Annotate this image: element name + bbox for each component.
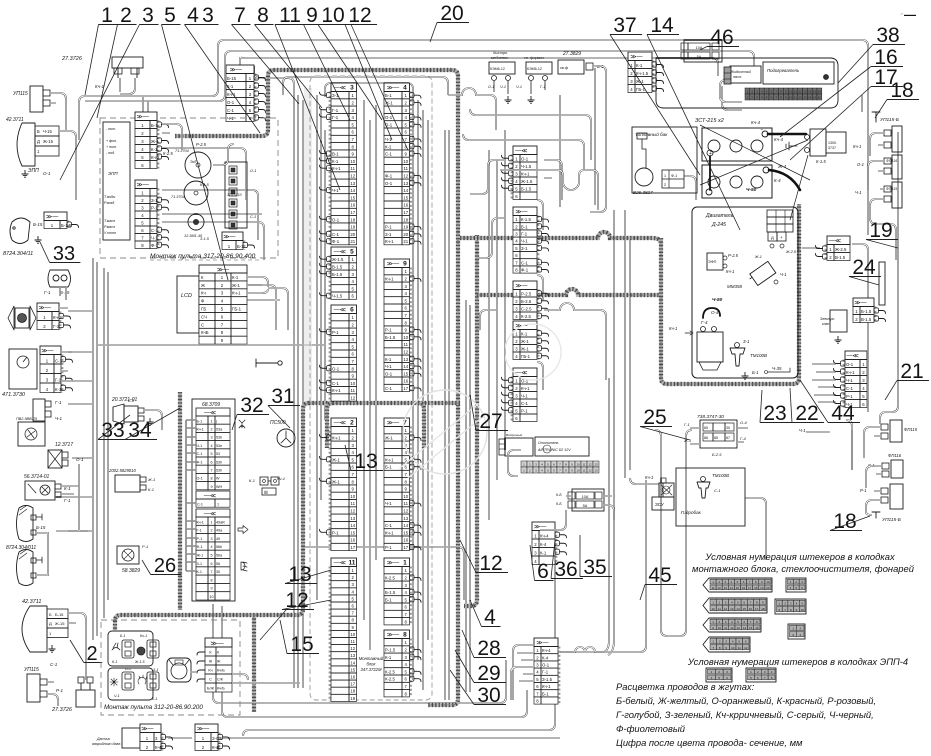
svg-text:8724.304/011: 8724.304/011 [6, 545, 36, 551]
braid stub to strip7 [418, 403, 424, 448]
svg-text:С-1: С-1 [55, 358, 63, 363]
wire below strips 2-7 [305, 547, 464, 600]
svg-text:16: 16 [350, 203, 355, 208]
svg-text:ММ358: ММ358 [727, 284, 743, 289]
svg-text:С-1: С-1 [227, 108, 235, 113]
svg-text:19: 19 [403, 225, 408, 230]
svg-text:О-1: О-1 [76, 457, 84, 462]
svg-text:≫—: ≫— [41, 349, 53, 355]
svg-text:3: 3 [210, 537, 212, 541]
svg-text:≫—: ≫— [217, 268, 229, 274]
svg-text:31: 31 [271, 385, 294, 408]
svg-text:Г-4: Г-4 [701, 320, 708, 325]
svg-text:▤: ▤ [264, 490, 268, 495]
svg-text:20: 20 [440, 2, 463, 25]
svg-text:ГБ-1: ГБ-1 [521, 354, 531, 359]
svg-text:С-1: С-1 [521, 401, 529, 406]
svg-text:З-1.5: З-1.5 [542, 677, 553, 682]
svg-text:С-1: С-1 [197, 452, 203, 456]
connector X7 strip [384, 418, 410, 551]
legend pictogram row1 [703, 578, 772, 592]
svg-text:≫—: ≫— [387, 421, 399, 427]
svg-text:≫—: ≫— [223, 235, 235, 241]
svg-text:42.3711: 42.3711 [22, 599, 41, 605]
svg-text:1: 1 [403, 560, 407, 567]
pult 317 dashed box [100, 118, 278, 258]
ignition gauge [167, 658, 191, 682]
svg-text:36: 36 [554, 558, 577, 581]
svg-text:≫—: ≫— [515, 210, 527, 216]
svg-text:5: 5 [210, 554, 212, 558]
svg-text:Ф-1: Ф-1 [197, 545, 203, 549]
svg-text:О-1: О-1 [332, 217, 340, 222]
svg-text:К-1.5: К-1.5 [521, 217, 532, 222]
svg-text:Б-1: Б-1 [197, 419, 203, 423]
svg-text:ФП116: ФП116 [888, 453, 902, 458]
svg-text:Кч-1: Кч-1 [846, 370, 855, 375]
svg-text:Кч-1: Кч-1 [385, 457, 394, 462]
svg-text:16: 16 [403, 203, 408, 208]
svg-text:Б-1.5: Б-1.5 [385, 335, 396, 340]
svg-text:Г-1: Г-1 [55, 377, 62, 382]
switch panel lower [108, 668, 153, 700]
svg-text:738.3747-30: 738.3747-30 [697, 414, 724, 420]
svg-text:21: 21 [403, 239, 408, 244]
liquid pump box [730, 66, 761, 83]
wire from pult down [143, 97, 148, 118]
svg-text:О-1: О-1 [385, 181, 393, 186]
svg-text:14: 14 [403, 188, 408, 193]
svg-text:Монтаж пульта 312-20-86.90.200: Монтаж пульта 312-20-86.90.200 [104, 704, 203, 711]
svg-text:16: 16 [742, 586, 746, 590]
svg-text:С-1: С-1 [250, 215, 256, 219]
connector G-1 Ch-1 [33, 399, 45, 421]
svg-text:9: 9 [210, 485, 212, 489]
svg-text:Ж-1: Ж-1 [385, 101, 393, 106]
svg-text:Ж-2.5: Ж-2.5 [785, 250, 797, 254]
svg-text:Р-1: Р-1 [385, 225, 392, 230]
svg-text:Кч-4: Кч-4 [540, 533, 549, 538]
svg-text:Ч-1: Ч-1 [780, 272, 787, 277]
svg-text:Б-1: Б-1 [385, 597, 392, 602]
svg-text:6: 6 [210, 460, 212, 464]
svg-text:5А: 5А [583, 504, 588, 508]
svg-text:2002.5829010: 2002.5829010 [108, 468, 136, 473]
battery 1 [702, 128, 772, 161]
svg-text:7: 7 [210, 570, 212, 574]
svg-text:1: 1 [101, 4, 113, 27]
svg-text:К-1: К-1 [521, 331, 528, 336]
svg-text:12: 12 [724, 607, 728, 611]
68.3709 left wires [186, 419, 196, 421]
svg-text:Г-голубой, З-зеленый, Кч-кррич: Г-голубой, З-зеленый, Кч-крричневый, С-с… [616, 709, 874, 720]
wire wave mid 2 [478, 218, 505, 330]
svg-text:21: 21 [900, 360, 923, 383]
svg-text:1: 1 [217, 503, 219, 507]
connector X3 strip [331, 83, 357, 245]
test point symbol [256, 359, 277, 367]
svg-text:—≪: —≪ [334, 421, 346, 427]
svg-text:ТМ100В: ТМ100В [712, 473, 729, 478]
svg-text:К-2.5: К-2.5 [521, 314, 532, 319]
svg-text:Б-1: Б-1 [542, 691, 549, 696]
svg-text:1: 1 [664, 174, 666, 178]
svg-text:17: 17 [755, 607, 759, 611]
svg-text:К-4: К-4 [540, 542, 547, 547]
svg-text:К-1: К-1 [55, 387, 62, 392]
wiper icon [239, 420, 245, 428]
svg-text:≫—: ≫— [387, 561, 399, 567]
svg-text:Ж-4: Ж-4 [777, 164, 787, 169]
svg-text:Ч-1: Ч-1 [521, 239, 528, 244]
svg-text:13: 13 [803, 96, 807, 100]
svg-text:29: 29 [477, 662, 500, 685]
svg-text:53b: 53b [216, 436, 222, 440]
svg-text:18: 18 [761, 607, 765, 611]
svg-text:3737: 3737 [828, 146, 836, 150]
svg-text:К-1: К-1 [249, 478, 255, 483]
svg-text:20: 20 [403, 232, 408, 237]
turnsignal icon [238, 526, 248, 534]
svg-text:Подогреватель: Подогреватель [767, 68, 800, 73]
svg-text:Ж-1: Ж-1 [521, 346, 529, 351]
connector bottom mid 8pin [534, 638, 558, 704]
svg-text:Монтаж пульта 317-20-86.90.400: Монтаж пульта 317-20-86.90.400 [150, 253, 256, 260]
svg-text:58.3829: 58.3829 [122, 568, 140, 574]
svg-text:2: 2 [86, 643, 97, 665]
svg-text:13: 13 [403, 516, 408, 521]
svg-text:68.3709: 68.3709 [202, 402, 220, 408]
svg-text:5А: 5А [697, 55, 702, 59]
svg-text:аварийного давл.: аварийного давл. [92, 742, 121, 746]
svg-text:AIRTRONIC D2 12V: AIRTRONIC D2 12V [537, 448, 571, 452]
svg-text:Ч-50: Ч-50 [712, 297, 723, 303]
connector mid M3 4pin [513, 281, 537, 320]
svg-text:13: 13 [724, 586, 728, 590]
svg-text:2: 2 [350, 420, 354, 427]
fuse block top [684, 40, 722, 62]
fuse block mid [572, 489, 604, 511]
svg-text:Ж: Ж [201, 283, 205, 288]
fog lamp 8724.304/011 upper [17, 506, 34, 542]
svg-text:Т.масл: Т.масл [104, 219, 115, 223]
svg-text:Кч-1: Кч-1 [332, 166, 341, 171]
svg-text:С-1: С-1 [332, 381, 340, 386]
svg-text:≫—: ≫— [387, 262, 399, 268]
podogrevatel box [763, 62, 834, 84]
svg-text:7: 7 [210, 469, 212, 473]
svg-text:15: 15 [403, 371, 408, 376]
svg-text:≫—: ≫— [137, 115, 149, 121]
svg-text:Расцветка проводов в жгутах:: Расцветка проводов в жгутах: [616, 681, 755, 692]
braid crossing horizontal [115, 403, 460, 630]
svg-text:Г-1: Г-1 [521, 232, 528, 237]
svg-text:17: 17 [403, 545, 408, 550]
pult connector A [135, 112, 157, 169]
wire right lamps loop [846, 412, 892, 470]
LCD connector [199, 265, 247, 344]
legend pictogram row2 [703, 598, 767, 613]
svg-text:КчБ: КчБ [155, 745, 163, 750]
horn 8724.304/11 [10, 218, 30, 244]
svg-text:53а: 53а [216, 428, 223, 432]
svg-text:≫—: ≫— [387, 86, 399, 92]
connector X8 strip [384, 630, 410, 697]
svg-text:10: 10 [350, 381, 355, 386]
LCD unit [177, 276, 199, 333]
svg-text:87: 87 [726, 436, 730, 440]
svg-text:Ф-1: Ф-1 [385, 174, 393, 179]
svg-text:14: 14 [403, 523, 408, 528]
svg-text:16: 16 [350, 538, 355, 543]
wires mid column verticals [489, 130, 505, 520]
wires between mid strips [537, 200, 543, 390]
svg-text:14: 14 [350, 188, 355, 193]
svg-text:Ч-1: Ч-1 [114, 694, 120, 698]
svg-text:Р-2.5: Р-2.5 [196, 142, 207, 147]
svg-text:Кч-1: Кч-1 [726, 269, 734, 274]
wire hump mid right [544, 303, 606, 380]
wire wave to mid strip M1 [470, 160, 505, 194]
svg-text:Б-1.5: Б-1.5 [332, 272, 343, 277]
svg-text:42.3711: 42.3711 [6, 117, 24, 123]
svg-text:О-1: О-1 [250, 169, 256, 173]
svg-text:клап.: клап. [822, 322, 830, 326]
svg-text:11: 11 [711, 586, 714, 590]
svg-text:С-1: С-1 [521, 260, 529, 265]
svg-text:Кч-1: Кч-1 [95, 84, 104, 89]
svg-text:З-1: З-1 [151, 198, 158, 203]
TM100V sensor engine [735, 343, 740, 348]
svg-text:Г-1: Г-1 [542, 670, 549, 675]
wire top run 20 [85, 40, 868, 108]
wire fuel sender out [684, 176, 696, 200]
wires right margin of block [413, 95, 428, 690]
otopitel airtronic [535, 437, 589, 456]
svg-text:W: W [216, 477, 220, 481]
svg-text:13: 13 [594, 463, 598, 467]
svg-text:15: 15 [813, 90, 817, 94]
wire gidrobak right [745, 498, 766, 560]
svg-text:10: 10 [403, 494, 408, 499]
svg-text:56: 56 [216, 562, 220, 566]
svg-text:Кч-1: Кч-1 [151, 155, 160, 160]
wire left harness vertical [93, 258, 97, 640]
wire pair right of block [445, 130, 449, 700]
svg-text:11: 11 [351, 166, 356, 171]
svg-text:6: 6 [537, 560, 549, 583]
svg-text:К-1: К-1 [332, 159, 339, 164]
svg-text:21: 21 [350, 239, 355, 244]
svg-text:С-1: С-1 [385, 386, 393, 391]
svg-text:Ф-1: Ф-1 [521, 268, 529, 273]
svg-text:Жидкостный: Жидкостный [730, 70, 751, 74]
svg-text:Д: Д [49, 621, 52, 626]
svg-text:71.3704: 71.3704 [171, 195, 185, 199]
svg-text:10: 10 [403, 159, 408, 164]
svg-text:Р-1: Р-1 [56, 688, 64, 693]
svg-text:13: 13 [350, 653, 355, 658]
svg-text:11: 11 [351, 639, 356, 644]
svg-text:К-1: К-1 [540, 550, 547, 555]
braid branch down left [252, 615, 256, 712]
svg-text:Ч-50: Ч-50 [746, 187, 757, 193]
svg-text:В-1.5: В-1.5 [835, 255, 846, 260]
wire top run 2nd [85, 51, 754, 101]
svg-text:Г-1: Г-1 [55, 400, 62, 405]
svg-text:Ж-1: Ж-1 [521, 339, 529, 344]
connector otopitel 4pin [532, 522, 555, 565]
svg-text:11: 11 [351, 388, 356, 393]
legend EPP pictograms [706, 668, 732, 682]
svg-text:Г-1: Г-1 [332, 108, 339, 113]
svg-text:Кч/Б: Кч/Б [217, 687, 225, 691]
svg-text:К-2.5: К-2.5 [385, 576, 396, 581]
svg-text:В-1.5: В-1.5 [332, 265, 343, 270]
svg-text:33: 33 [53, 243, 75, 265]
svg-text:37: 37 [613, 14, 636, 37]
svg-text:Б-1: Б-1 [152, 697, 158, 701]
svg-text:15: 15 [743, 607, 747, 611]
svg-text:Кч-1: Кч-1 [385, 239, 394, 244]
svg-text:17: 17 [403, 210, 408, 215]
svg-text:св.ф: св.ф [560, 66, 568, 70]
connector X1 strip [384, 558, 410, 625]
wire bottom loop 1 [213, 604, 506, 703]
svg-text:4: 4 [484, 606, 496, 629]
gauge 71.3704 upper [185, 152, 211, 178]
lamp FP116 top [892, 155, 902, 179]
svg-text:Ж-1: Ж-1 [197, 554, 204, 558]
svg-text:11: 11 [724, 626, 727, 630]
svg-text:Кч: Кч [208, 669, 212, 673]
svg-text:В-1.5: В-1.5 [861, 317, 872, 322]
svg-text:Кч-4: Кч-4 [774, 137, 783, 142]
svg-text:Ч-1: Ч-1 [516, 85, 522, 89]
svg-text:18: 18 [350, 689, 355, 694]
svg-text:15: 15 [736, 586, 740, 590]
svg-text:Б-белый, Ж-желтый, О-оранжевый: Б-белый, Ж-желтый, О-оранжевый, К-красны… [616, 695, 876, 706]
svg-text:Кч-1: Кч-1 [385, 530, 394, 535]
svg-text:4: 4 [187, 4, 199, 27]
engine right connector [827, 236, 850, 261]
svg-text:Ч-1: Ч-1 [521, 393, 528, 398]
svg-text:12: 12 [799, 96, 803, 100]
svg-text:св. формоз: св. формоз [524, 56, 544, 60]
fog lamp 8724.304/011 lower [17, 550, 34, 586]
svg-text:13: 13 [403, 357, 408, 362]
braid engine feed 1 [460, 232, 661, 244]
svg-text:Б-15: Б-15 [33, 222, 43, 227]
svg-text:К-1: К-1 [112, 660, 117, 664]
svg-text:WH: WH [216, 485, 222, 489]
svg-text:Ж-1: Ж-1 [754, 255, 762, 259]
svg-text:49а: 49а [216, 529, 223, 533]
svg-text:12: 12 [730, 626, 734, 630]
svg-text:Топливный бак: Топливный бак [635, 131, 668, 137]
wire left harness vertical 2 [104, 268, 108, 618]
legend pictogram row3 [703, 618, 761, 632]
svg-text:≫—: ≫— [197, 727, 209, 733]
svg-text:ГБ-1: ГБ-1 [232, 307, 242, 312]
svg-text:15: 15 [290, 633, 313, 656]
svg-text:—≪: —≪ [515, 149, 527, 155]
svg-text:19: 19 [350, 225, 355, 230]
svg-text:12: 12 [588, 469, 592, 473]
svg-text:Кч-1: Кч-1 [853, 144, 861, 149]
svg-text:О-1: О-1 [197, 477, 203, 481]
svg-text:3: 3 [210, 436, 212, 440]
svg-text:11: 11 [794, 90, 797, 94]
svg-text:Кч-1: Кч-1 [140, 634, 147, 638]
svg-text:насос: насос [733, 75, 742, 79]
svg-text:Цифра после цвета провода- сеч: Цифра после цвета провода- сечение, мм [616, 737, 803, 748]
svg-text:30: 30 [726, 426, 730, 430]
svg-text:12: 12 [403, 509, 408, 514]
svg-text:4: 4 [210, 444, 212, 448]
svg-text:Ч-1: Ч-1 [799, 428, 806, 433]
svg-text:С-2.5: С-2.5 [521, 306, 532, 311]
svg-text:53h: 53h [216, 460, 222, 464]
montage block dashed boundary [310, 76, 432, 700]
svg-text:17: 17 [748, 586, 752, 590]
svg-text:375.3710: 375.3710 [227, 193, 242, 197]
svg-text:—≪: —≪ [847, 354, 859, 360]
svg-text:Ч-1: Ч-1 [151, 235, 158, 240]
svg-text:33: 33 [101, 419, 124, 442]
svg-text:К-2.5: К-2.5 [385, 677, 396, 682]
otopitel terminal strip [521, 461, 527, 467]
svg-text:В-1: В-1 [332, 152, 339, 157]
wire right verticals x625 [625, 210, 630, 478]
hydrotank box [676, 468, 745, 526]
svg-text:Г-4: Г-4 [740, 436, 747, 441]
svg-text:К-Б: К-Б [556, 493, 562, 497]
wires left ladder to harness [56, 311, 93, 531]
svg-text:Ж-15: Ж-15 [55, 621, 65, 626]
svg-text:18: 18 [833, 510, 856, 533]
svg-text:ЗСУ: ЗСУ [655, 502, 664, 507]
svg-text:Воздушный: Воздушный [506, 433, 522, 437]
svg-text:—≪: —≪ [204, 411, 216, 417]
svg-text:16: 16 [403, 379, 408, 384]
svg-text:13: 13 [354, 450, 377, 473]
svg-text:32: 32 [240, 394, 263, 417]
switch block 68.3709 [192, 399, 235, 601]
svg-text:18: 18 [350, 217, 355, 222]
svg-text:Д: Д [37, 139, 40, 144]
svg-text:Ф-1: Ф-1 [197, 460, 203, 464]
svg-text:14: 14 [808, 96, 812, 100]
svg-text:З-1: З-1 [385, 232, 392, 237]
svg-text:Ж-1: Ж-1 [332, 457, 340, 462]
wire fog lamps bracket [36, 533, 48, 575]
svg-text:38: 38 [876, 24, 899, 47]
svg-text:Р-1: Р-1 [385, 328, 392, 333]
connector mid M2 8pin [513, 207, 537, 273]
svg-text:СЧ: СЧ [201, 314, 207, 319]
connector X2 strip [331, 418, 357, 551]
svg-text:13: 13 [803, 90, 807, 94]
svg-text:З-1: З-1 [153, 668, 158, 672]
heater enclosure [656, 58, 838, 108]
svg-text:11: 11 [348, 560, 355, 567]
svg-text:К-1.5: К-1.5 [816, 159, 826, 164]
connector X11 strip [331, 558, 357, 701]
wire bump run to strip [560, 480, 646, 652]
svg-text:—≪: —≪ [334, 250, 346, 256]
svg-text:10: 10 [800, 608, 804, 612]
